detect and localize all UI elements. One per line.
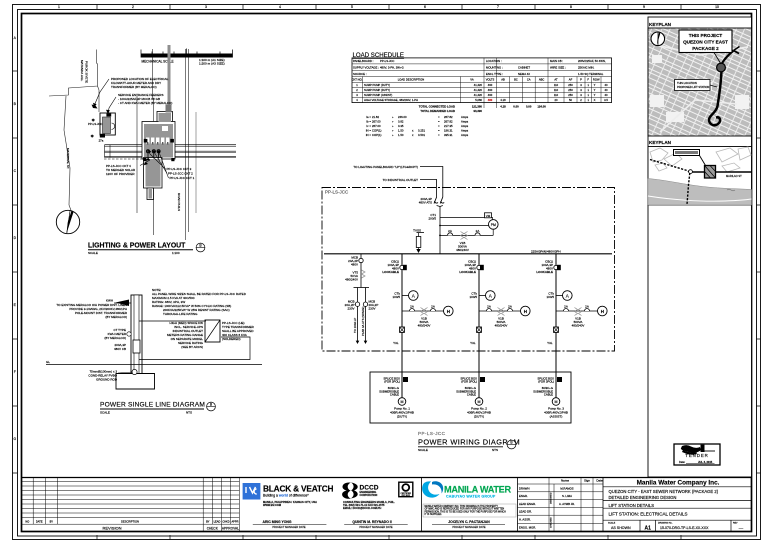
svg-text:0.82: 0.82 [398,119,404,123]
svg-text:LOCATION :: LOCATION : [486,59,502,63]
svg-text:SUMP PUMP (ASSIST): SUMP PUMP (ASSIST) [364,93,392,97]
svg-text:SCALE: SCALE [608,522,616,525]
svg-text:4.18: 4.18 [500,104,506,108]
svg-text:TVSS: TVSS [413,228,421,232]
svg-text:IN =: IN = [366,133,372,137]
svg-text:CABINET: CABINET [518,66,530,70]
svg-text:THIS PROJECT: THIS PROJECT [689,33,723,38]
svg-text:110: 110 [554,83,559,87]
svg-text:CKT NO.: CKT NO. [352,78,363,82]
svg-text:5,080: 5,080 [475,98,482,102]
svg-text:ENCL TYPE :: ENCL TYPE : [486,72,503,76]
svg-text:196.31: 196.31 [444,128,453,132]
svg-text:CABUYAO WATER GROUP: CABUYAO WATER GROUP [446,495,496,499]
svg-text:480V: 480V [351,263,358,267]
svg-text:(DUTY): (DUTY) [397,415,407,419]
svg-text:LIGHTING & POWER LAYOUT: LIGHTING & POWER LAYOUT [88,243,186,250]
svg-text:P1AB 4A UTS (SPARE): P1AB 4A UTS (SPARE) [361,306,365,336]
svg-text:ENGR.: ENGR. [519,494,528,498]
svg-text:JOCELYN C. PACTANJAN: JOCELYN C. PACTANJAN [448,520,490,524]
svg-text:1: 1 [58,5,60,9]
svg-text:GROUND ROD: GROUND ROD [96,378,118,382]
svg-text:PROPOSED LIFT STATION: PROPOSED LIFT STATION [677,85,709,89]
svg-text:(BY MERALCO): (BY MERALCO) [104,336,126,340]
svg-text:+: + [392,115,394,119]
svg-text:27a: 27a [99,138,104,142]
svg-text:LIFT STATION: ELECTRICAL DETA: LIFT STATION: ELECTRICAL DETAILS [609,511,688,516]
svg-text:Y: Y [594,88,596,92]
svg-text:7: 7 [497,5,499,9]
svg-text:D: D [14,236,17,240]
svg-text:Date: Date [596,479,603,483]
svg-text:KWH: KWH [106,299,113,303]
svg-text:3: 3 [580,83,582,87]
svg-text:P: P [580,78,582,82]
svg-text:OF MWC AND IS REPRODUCED FOR A: OF MWC AND IS REPRODUCED FOR ANY PURPOSE… [425,508,505,511]
svg-text:(ASSIST): (ASSIST) [550,415,563,419]
svg-text:PP-LS-JCC: PP-LS-JCC [418,431,446,436]
svg-text:PP-LS-JCC: PP-LS-JCC [380,59,394,63]
svg-text:Amps: Amps [461,115,469,119]
svg-text:6: 6 [424,5,426,9]
svg-text:CA: CA [527,78,531,82]
svg-text:PERMISSION. THIS IS TO BE USED: PERMISSION. THIS IS TO BE USED ONLY FOR … [425,511,507,513]
svg-text:Ia =: Ia = [366,115,371,119]
svg-text:3: 3 [356,93,358,97]
svg-text:Ib =: Ib = [366,119,371,123]
svg-text:IT IS SUPPLIED.: IT IS SUPPLIED. [425,514,443,516]
svg-text:110: 110 [554,93,559,97]
svg-text:BC: BC [514,78,518,82]
svg-text:3: 3 [205,5,207,9]
svg-text:335.31: 335.31 [444,133,453,137]
svg-text:X: X [594,98,596,102]
svg-text:ARIC MING YONG: ARIC MING YONG [263,520,292,524]
svg-text:230V: 230V [369,307,376,311]
svg-text:3: 3 [580,93,582,97]
svg-text:QUEZON CITY EAST: QUEZON CITY EAST [683,40,728,45]
svg-text:(SOLDERED): (SOLDERED) [222,337,241,341]
svg-text:PACKAGE 2: PACKAGE 2 [692,46,719,51]
svg-text:250: 250 [568,83,573,87]
svg-text:VM: VM [486,214,491,218]
svg-text:480/240V: 480/240V [456,248,469,252]
svg-text:250: 250 [568,88,573,92]
svg-text:+: + [392,133,394,137]
svg-text:THIS LOCATION: THIS LOCATION [677,81,697,85]
svg-text:246.00: 246.00 [398,115,407,119]
svg-text:(BY MERALCO): (BY MERALCO) [105,315,127,319]
svg-text:REVISION: REVISION [102,526,121,531]
svg-text:AF: AF [569,78,573,82]
svg-text:AT: AT [554,78,558,82]
svg-text:GL: GL [46,360,50,364]
svg-text:COP(1): COP(1) [372,128,382,132]
svg-text:LIFT STATION DETAILS: LIFT STATION DETAILS [609,503,655,508]
svg-text:Amps: Amps [461,124,469,128]
svg-text:MOUNTING :: MOUNTING : [486,66,503,70]
svg-text:MANILA WATER: MANILA WATER [444,485,511,495]
svg-text:Name: Name [561,479,569,483]
svg-text:BLACK & VEATCH: BLACK & VEATCH [263,484,334,494]
svg-text:1: 1 [356,83,358,87]
svg-text:21.82: 21.82 [372,115,379,119]
svg-text:480V CB: 480V CB [114,347,126,351]
svg-text:PUROK SIYETE: PUROK SIYETE [85,61,89,83]
svg-text:S. LIMA: S. LIMA [562,494,572,498]
svg-text:QUINTIN M. REYNADO II: QUINTIN M. REYNADO II [352,520,391,524]
svg-text:LEAD DR.: LEAD DR. [519,510,532,514]
svg-text:CHKD: CHKD [222,519,229,523]
svg-text:PP-LS-JCC: PP-LS-JCC [88,122,102,126]
svg-text:+: + [392,124,394,128]
svg-text:TO LIGHTING PANELBOARD "LP"(LT: TO LIGHTING PANELBOARD "LP"(LTG&RCPT) [353,165,418,169]
svg-text:APPROVAL: APPROVAL [222,526,239,530]
svg-text:2A: 2A [476,229,480,233]
svg-text:0.501: 0.501 [418,133,425,137]
svg-text:DESIGNED: DESIGNED [551,492,553,504]
svg-text:✱: ✱ [91,134,95,139]
svg-text:NTS: NTS [492,448,498,452]
svg-text:VOLTS: VOLTS [486,78,495,82]
svg-text:TO INDUSTRIAL OUTLET: TO INDUSTRIAL OUTLET [383,178,419,182]
svg-text:—: — [739,525,744,530]
svg-text:WWW.BV.COM: WWW.BV.COM [263,503,281,507]
svg-text:4.18: 4.18 [500,98,506,102]
svg-text:50: 50 [569,98,572,102]
svg-text:WIRE SIZE :: WIRE SIZE : [550,66,566,70]
svg-text:M.RAMOS: M.RAMOS [560,486,573,490]
svg-text:(SEE BY ARCS): (SEE BY ARCS) [181,345,203,349]
svg-text:MAIN CB :: MAIN CB : [550,59,563,63]
svg-text:1: 1 [587,93,589,97]
svg-text:4: 4 [279,5,281,9]
svg-text:120V OF PROVIDER: 120V OF PROVIDER [106,172,135,176]
svg-text:SUPPLY VOLTAGE :: SUPPLY VOLTAGE : [353,66,379,70]
svg-text:8: 8 [570,5,572,9]
svg-text:480: 480 [488,98,493,102]
svg-text:Amps: Amps [461,128,469,132]
svg-text:1-50 SQ TERMINAL: 1-50 SQ TERMINAL [578,72,604,76]
svg-text:200/5: 200/5 [428,217,436,221]
svg-text:ROW: ROW [593,78,600,82]
svg-text:PP-LS-JCC: PP-LS-JCC [325,190,349,195]
svg-text:SUMP PUMP (DUTY): SUMP PUMP (DUTY) [364,88,390,92]
svg-text:PP-LS-JCC CKT 2: PP-LS-JCC CKT 2 [168,172,193,176]
svg-text:QUEZON CITY - EAST SEWER NETWO: QUEZON CITY - EAST SEWER NETWORK (PACKAG… [609,489,719,494]
svg-text:267.00: 267.00 [372,124,381,128]
svg-text:ABC: ABC [539,78,545,82]
svg-text:ROAD PHILS: ROAD PHILS [177,193,181,211]
svg-text:1: 1 [587,83,589,87]
svg-text:NO: NO [25,519,29,523]
svg-text:Amps: Amps [461,119,469,123]
svg-text:0.251: 0.251 [418,128,425,132]
svg-text:121,380: 121,380 [472,104,483,108]
svg-text:A1: A1 [644,525,651,531]
svg-text:BY: BY [50,519,54,523]
svg-text:Y: Y [594,83,596,87]
svg-text:=: = [438,115,440,119]
svg-text:HIGH VOLTAGE STORAGE, 480/240V: HIGH VOLTAGE STORAGE, 480/240V, 1-PH [364,98,418,102]
svg-text:SOURCE :: SOURCE : [353,72,367,76]
svg-text:AS SHOWN: AS SHOWN [611,526,631,530]
svg-text:THROUGH-LIFE RATING: THROUGH-LIFE RATING [163,312,198,316]
svg-text:+: + [392,119,394,123]
svg-text:DRAWING No.: DRAWING No. [658,522,673,525]
svg-text:20: 20 [555,98,558,102]
svg-text:AB: AB [501,78,505,82]
svg-text:=: = [438,128,440,132]
svg-text:PROJECT MANAGER D: PROJECT MANAGER DATE [359,525,393,529]
svg-text:SCALE: SCALE [418,448,428,452]
svg-text:1: 1 [587,98,589,102]
svg-text:124.00: 124.00 [537,104,546,108]
svg-text:IN =: IN = [366,128,372,132]
svg-text:A. AYMB JR.: A. AYMB JR. [559,502,575,506]
svg-text:F: F [587,78,589,82]
svg-text:CHECKED: CHECKED [551,517,553,528]
svg-text:E: E [14,303,17,307]
svg-text:(DUTY): (DUTY) [474,415,484,419]
svg-text:APPR: APPR [231,519,238,523]
svg-text:MATANDA HILL: MATANDA HILL [80,60,84,82]
svg-text:217.35: 217.35 [444,124,453,128]
svg-text:2A: 2A [448,229,452,233]
svg-text:225A/3P(4)/480V/3PH: 225A/3P(4)/480V/3PH [531,249,561,253]
svg-text:LOAD DESCRIPTION: LOAD DESCRIPTION [398,78,424,82]
svg-text:G: G [13,437,16,441]
svg-text:CHECK: CHECK [207,526,219,530]
svg-text:208V/225AF, 50 4WN,: 208V/225AF, 50 4WN, [578,59,606,63]
svg-text:DETAILED ENGINEERING DESIGN: DETAILED ENGINEERING DESIGN [609,495,677,500]
svg-text:ISO 9001: ISO 9001 [402,495,411,497]
svg-text:460: 460 [488,88,493,92]
svg-text:PANELBOARD :: PANELBOARD : [353,59,374,63]
svg-text:PROJECT MANAGER D: PROJECT MANAGER DATE [452,525,486,529]
svg-text:SCALE: SCALE [100,411,110,415]
svg-text:267.82: 267.82 [444,115,453,119]
svg-text:- CT AND KWH METER (BY MERALCO: - CT AND KWH METER (BY MERALCO) [118,101,172,105]
svg-text:MARILAO ST: MARILAO ST [726,174,742,178]
svg-text:1:100: 1:100 [172,251,180,255]
svg-text:93,390: 93,390 [473,109,482,113]
svg-text:5: 5 [351,5,353,9]
svg-text:MATERNAL ST.: MATERNAL ST. [66,148,70,169]
svg-text:LEAD: LEAD [214,519,221,523]
svg-text:1.50: 1.50 [398,133,404,137]
svg-text:DRAWN: DRAWN [519,486,529,490]
svg-text:460: 460 [488,83,493,87]
svg-text:=: = [438,124,440,128]
svg-text:10: 10 [715,5,719,9]
svg-text:VA: VA [470,78,474,82]
svg-text:=: = [438,119,440,123]
svg-text:MANILA WATER COMPANY, INC. THI: MANILA WATER COMPANY, INC. THIS DRAWING … [425,505,499,508]
svg-text:B: B [14,102,17,106]
svg-text:40: 40 [605,83,608,87]
svg-text:SUMP PUMP (DUTY): SUMP PUMP (DUTY) [364,83,390,87]
svg-text:REV: REV [733,523,738,525]
svg-text:POWER WIRING DIAGRAM: POWER WIRING DIAGRAM [418,438,520,447]
svg-text:CORPORATION: CORPORATION [360,494,378,497]
svg-text:DESCRIPTION: DESCRIPTION [121,519,139,523]
svg-text:460: 460 [488,93,493,97]
svg-text:Amps: Amps [461,133,469,137]
svg-text:KEYPLAN: KEYPLAN [649,22,672,27]
svg-text:40: 40 [605,88,608,92]
svg-text:3: 3 [580,88,582,92]
svg-text:3.5: 3.5 [604,98,608,102]
svg-text:15-070-DRG-TP-LS-E-XX-XXX: 15-070-DRG-TP-LS-E-XX-XXX [660,526,709,530]
svg-text:C: C [14,169,17,173]
svg-text:TENDER: TENDER [685,453,708,458]
svg-text:0.00: 0.00 [526,104,532,108]
svg-text:H. ASSR.: H. ASSR. [519,518,531,522]
svg-text:PM: PM [491,223,496,227]
svg-text:40: 40 [605,93,608,97]
svg-text:480/240V: 480/240V [345,278,358,282]
svg-text:DATE: DATE [36,519,43,523]
svg-text:F: F [14,370,16,374]
svg-text:2: 2 [356,88,358,92]
svg-text:+: + [392,128,394,132]
svg-text:EMAIL: DCCD@DCCD.COM.PH: EMAIL: DCCD@DCCD.COM.PH [343,506,381,510]
svg-text:Building a world of difference: Building a world of difference* [263,493,309,497]
svg-text:267.00: 267.00 [372,119,381,123]
svg-text:x: x [412,133,414,137]
svg-text:480V, 3-PH, 3W+G: 480V, 3-PH, 3W+G [380,66,404,70]
svg-text:4: 4 [356,98,358,102]
svg-text:25KAIC MIN.: 25KAIC MIN. [578,66,595,70]
svg-text:0.35: 0.35 [398,124,404,128]
svg-text:Y: Y [594,93,596,97]
svg-text:41,420: 41,420 [474,88,483,92]
svg-text:250: 250 [568,93,573,97]
svg-text:267.82: 267.82 [444,119,453,123]
svg-text:POWER SINGLE LINE DIAGRAM: POWER SINGLE LINE DIAGRAM [100,402,205,409]
svg-text:1.50: 1.50 [398,128,404,132]
svg-text:110: 110 [554,88,559,92]
svg-text:41,420: 41,420 [474,83,483,87]
svg-text:SCALE: SCALE [88,251,98,255]
svg-text:NTS: NTS [186,411,192,415]
svg-text:Date:: Date: [679,460,685,464]
svg-text:Sign: Sign [584,479,590,483]
svg-text:PP-LS-JCC CKT 3: PP-LS-JCC CKT 3 [167,167,192,171]
svg-text:9: 9 [643,5,645,9]
svg-text:Ic =: Ic = [366,124,371,128]
svg-text:TRANSFORMER (BY MERALCO): TRANSFORMER (BY MERALCO) [111,85,157,89]
svg-text:0.00: 0.00 [513,104,519,108]
svg-text:41,420: 41,420 [474,93,483,97]
svg-text:2: 2 [580,98,582,102]
svg-text:230V: 230V [347,307,354,311]
svg-text:TOTAL DEMANDED LOAD: TOTAL DEMANDED LOAD [420,109,455,113]
svg-text:Manila Water Company Inc.: Manila Water Company Inc. [637,480,720,487]
svg-text:COP(1): COP(1) [372,133,382,137]
svg-text:NEMA 4X: NEMA 4X [518,72,530,76]
svg-text:480V ATS: 480V ATS [419,201,432,205]
svg-text:1: 1 [587,88,589,92]
svg-text:TOTAL CONNECTED LOAD: TOTAL CONNECTED LOAD [419,104,455,108]
svg-text:KEYPLAN: KEYPLAN [649,140,672,145]
svg-text:TO 100A LP: TO 100A LP [353,318,357,333]
svg-text:1:200 m (A3 SIZE): 1:200 m (A3 SIZE) [199,62,225,66]
svg-text:LEAD ENGR.: LEAD ENGR. [519,502,536,506]
svg-text:=: = [438,133,440,137]
svg-text:BY: BY [206,519,210,523]
svg-text:PP-LS-JCC CKT 1: PP-LS-JCC CKT 1 [170,176,195,180]
svg-text:x: x [412,128,414,132]
svg-text:PROJECT MANAGER D: PROJECT MANAGER DATE [272,525,306,529]
svg-text:ENGG. MGR.: ENGG. MGR. [519,525,536,529]
svg-text:A: A [14,36,17,40]
svg-text:2: 2 [132,5,134,9]
